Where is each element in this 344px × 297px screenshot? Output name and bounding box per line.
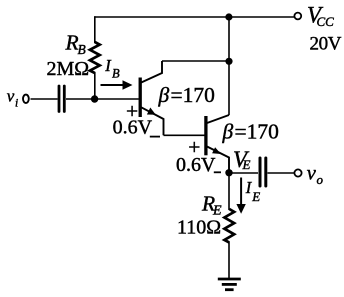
resistor RE [224,209,234,243]
wire RB bottom lead [94,72,96,99]
svg-text:110Ω: 110Ω [177,217,221,239]
svg-text:B: B [112,67,120,81]
svg-text:i: i [15,98,18,110]
resistor RB [90,42,100,73]
svg-text:v: v [307,162,317,184]
ground [218,279,241,290]
svg-text:o: o [317,172,324,187]
svg-text:0.6V: 0.6V [176,154,216,176]
node junction top rail [225,13,232,20]
wire Q1 collector rail [162,60,229,62]
node junction RB/base [91,95,98,102]
capacitor C2 plate right [264,158,267,186]
wire top rail [95,16,295,18]
label minus Q2 [214,171,221,173]
svg-text:20V: 20V [310,34,342,55]
terminal vi [23,95,29,103]
capacitor C1 plate left [58,86,61,112]
label minus Q1 [150,136,160,138]
wire capacitor to Q1 base [66,98,139,100]
transistor Q1 [140,61,163,135]
wire VCC vertical drop [228,17,230,115]
capacitor C2 plate left [259,158,262,186]
svg-text:E: E [242,157,251,172]
svg-text:B: B [78,42,86,57]
node VE [225,169,232,176]
svg-text:β: β [158,83,170,107]
svg-text:=170: =170 [235,120,279,144]
terminal VCC [294,13,301,20]
wire Q1 emitter to Q2 base [164,134,205,136]
svg-text:β: β [222,120,234,144]
svg-text:v: v [7,87,15,106]
svg-text:=170: =170 [171,83,215,107]
svg-text:CC: CC [317,14,335,29]
wire RB top lead [94,16,96,43]
wire VE to capacitor [229,172,258,174]
transistor Q2 [206,115,229,172]
svg-text:E: E [251,189,260,204]
arrow IE [240,178,242,207]
capacitor C1 plate right [63,86,66,112]
terminal vo [294,169,301,176]
svg-text:0.6V: 0.6V [113,117,153,139]
wire capacitor to vo [268,172,295,174]
arrow IB [101,84,126,86]
wire vi to capacitor [31,98,58,100]
svg-text:2MΩ: 2MΩ [47,58,90,80]
node junction collector rail [225,58,232,65]
wire VE to RE [228,173,230,210]
wire RE to ground [228,242,230,279]
